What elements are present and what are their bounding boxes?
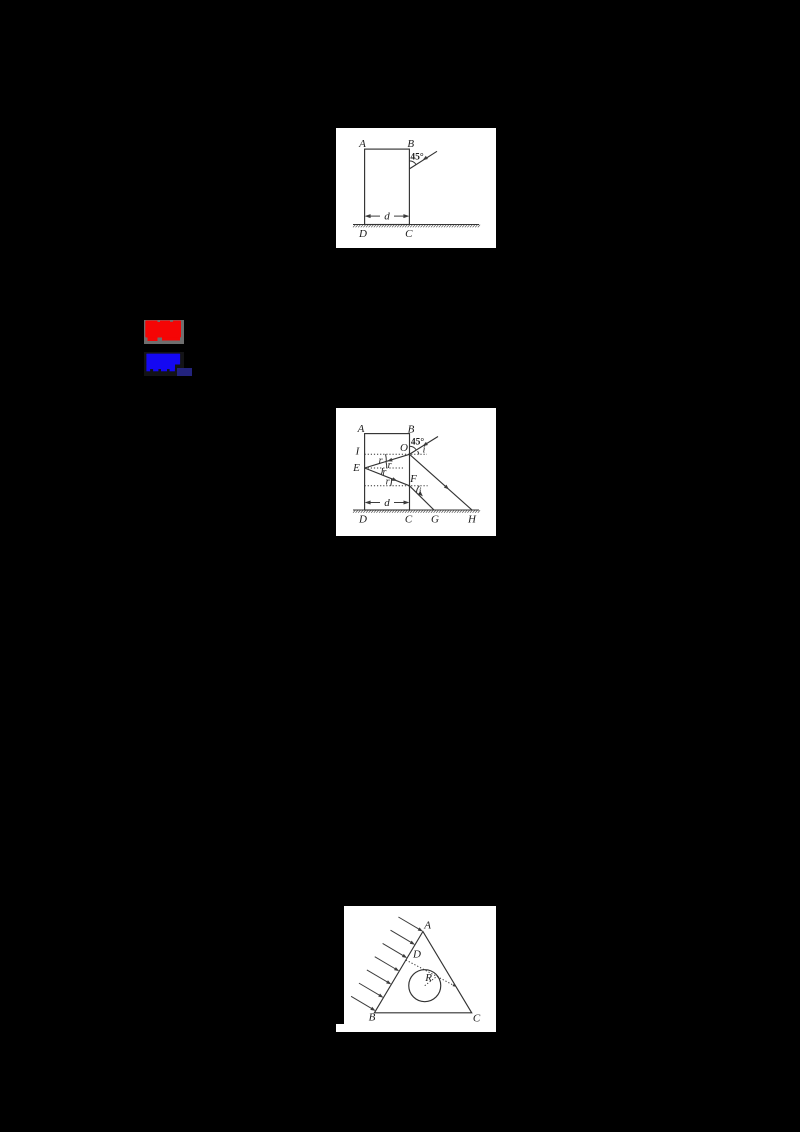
- svg-text:R: R: [424, 972, 432, 984]
- figure 1 box: [336, 128, 496, 249]
- svg-text:B: B: [408, 424, 415, 436]
- incident ray to O: [410, 437, 439, 455]
- glass slab rectangle ABCD: [365, 149, 410, 224]
- svg-text:45°: 45°: [410, 151, 424, 162]
- svg-text:i: i: [419, 487, 422, 498]
- internal ray E to F: [365, 468, 410, 486]
- dotted line at F: [365, 485, 428, 487]
- svg-text:D: D: [358, 514, 367, 526]
- svg-text:d: d: [384, 497, 390, 509]
- dimension d arrow: [367, 215, 408, 217]
- svg-text:H: H: [467, 514, 477, 526]
- 45 arc at O: [410, 446, 417, 450]
- svg-text:I: I: [355, 446, 361, 458]
- i arc at O: [418, 451, 419, 454]
- parallel incident rays: [351, 917, 424, 1012]
- inscribed circle R: [409, 970, 441, 1002]
- red answer stamp on gray box: [144, 320, 184, 344]
- dotted line at E: [365, 467, 404, 469]
- svg-text:B: B: [369, 1012, 376, 1024]
- svg-text:O: O: [400, 442, 408, 454]
- figure 2 box: [336, 408, 496, 536]
- svg-text:C: C: [405, 514, 413, 526]
- svg-text:i: i: [423, 445, 426, 456]
- svg-text:F: F: [409, 473, 417, 485]
- svg-text:C: C: [405, 228, 413, 240]
- ground hatching fig1: [353, 223, 479, 225]
- figure 3 box: [344, 906, 496, 1032]
- r arc at E lower: [381, 468, 382, 475]
- svg-text:B: B: [407, 138, 414, 150]
- dotted normal line through O: [365, 453, 427, 455]
- svg-text:d: d: [384, 210, 390, 222]
- figure 3 bottom-left white notch: [336, 1024, 345, 1033]
- 45 degree arc: [409, 160, 416, 164]
- svg-text:A: A: [423, 920, 431, 932]
- blue annotation: [144, 352, 184, 376]
- svg-text:A: A: [358, 138, 366, 150]
- dotted radius line: [425, 976, 437, 985]
- prism triangle ABC: [374, 932, 471, 1013]
- svg-text:G: G: [431, 514, 439, 526]
- svg-text:D: D: [358, 228, 367, 240]
- refracted ray O to E: [365, 454, 410, 468]
- dimension d arrow: [367, 502, 408, 504]
- r arc at E upper: [385, 462, 388, 469]
- svg-text:D: D: [412, 949, 421, 961]
- svg-text:C: C: [473, 1013, 481, 1025]
- svg-text:E: E: [352, 462, 360, 474]
- svg-text:r: r: [388, 460, 392, 471]
- refracted ray F to G: [410, 486, 435, 510]
- ground line fig2: [353, 509, 479, 511]
- glass slab rectangle ABCD: [365, 434, 410, 510]
- reflected ray O to H: [410, 454, 473, 510]
- i arc at F: [417, 486, 420, 493]
- svg-text:A: A: [357, 423, 365, 435]
- dotted refracted line from D: [406, 960, 456, 987]
- incident ray at B: [409, 151, 437, 169]
- svg-text:r: r: [379, 456, 383, 467]
- r arc at O (inside): [385, 454, 388, 461]
- svg-text:r: r: [386, 477, 390, 488]
- r arc at F: [390, 479, 393, 486]
